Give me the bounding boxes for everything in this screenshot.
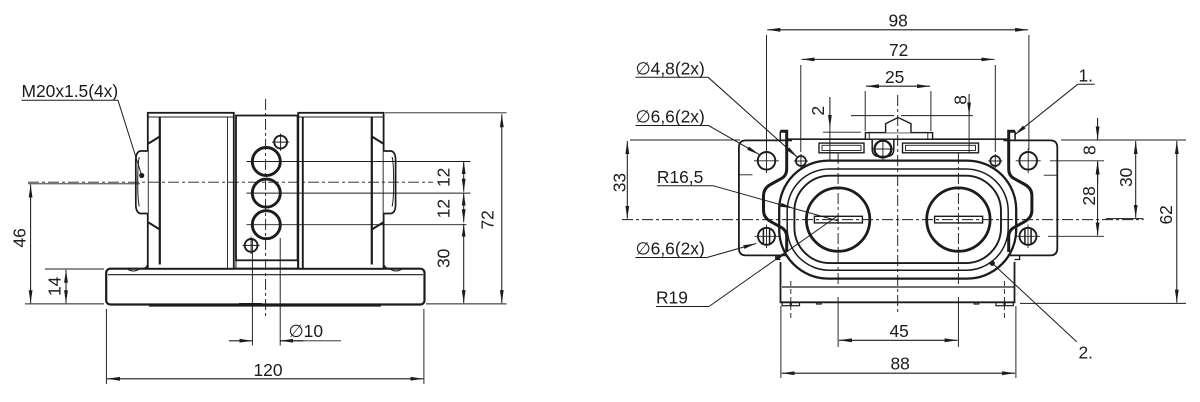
svg-text:30: 30 (434, 249, 454, 268)
label R165 underline (657, 185, 714, 187)
panel bottom right step (297, 260, 299, 268)
terminal screw pad (872, 140, 894, 157)
big circle left (806, 188, 869, 251)
tab hole bottom right cross (1016, 225, 1040, 249)
right block rib chamfer bottom (372, 223, 383, 230)
dim 14 ext top (45, 268, 104, 270)
right block left inner line (302, 117, 304, 268)
svg-text:12: 12 (434, 199, 454, 218)
label 2 leader (992, 263, 1077, 342)
dim 72 ext lines (801, 65, 996, 152)
dim 33 ext top (630, 139, 740, 141)
svg-text:1.: 1. (1079, 66, 1094, 86)
label o66 upper underline (636, 125, 709, 127)
dim 72 line (802, 58, 995, 60)
RIGHT-VIEW-DIMS (627, 30, 1186, 378)
base top left recess dip (127, 269, 140, 271)
hole o48 left (796, 156, 806, 166)
M20 leader dot (139, 173, 144, 178)
label 2 leader dot (990, 261, 995, 266)
label 1 leader (1014, 84, 1077, 135)
right circle vertical centerline (957, 153, 959, 285)
tab hole bottom left (758, 228, 775, 245)
right block (298, 113, 383, 269)
left block rib chamfer bottom (149, 223, 160, 230)
dim 8 right hole ext (1050, 160, 1104, 162)
base bottom recess line (149, 305, 381, 307)
left block base fillet (141, 262, 148, 268)
LEFT-VIEW (28, 99, 471, 316)
svg-text:98: 98 (889, 10, 908, 30)
dim 46 ext bottom left (25, 303, 104, 305)
svg-text:∅4,8(2x): ∅4,8(2x) (636, 59, 705, 79)
svg-text:R16,5: R16,5 (657, 167, 703, 187)
dim 98 line (767, 29, 1028, 31)
horizontal centerline bosses (28, 181, 433, 183)
dim 30 ext bottom (1106, 218, 1144, 220)
dim 88 line (782, 372, 1015, 374)
left boss M20 (136, 151, 148, 214)
vent slot left inner (822, 145, 861, 150)
svg-text:2.: 2. (1079, 343, 1094, 363)
svg-text:46: 46 (10, 228, 30, 247)
hole circle bottom centerline (247, 224, 467, 226)
left J wall (764, 131, 787, 252)
svg-text:72: 72 (478, 210, 498, 229)
label R19 arrowhead (776, 251, 788, 260)
bottom notch left (817, 302, 822, 304)
dim 88 ext lines (781, 306, 1016, 378)
dim 2 ext line (823, 131, 861, 133)
dim 45 ext lines (838, 297, 958, 347)
dim 25 ext lines (865, 91, 931, 131)
label o66 upper leader (709, 126, 760, 155)
dim 72 ext top (385, 112, 507, 114)
tab hole top left (758, 152, 776, 170)
svg-text:R19: R19 (656, 287, 688, 307)
main horizontal centerline (622, 219, 1144, 221)
actuator tab pentagon (886, 118, 911, 133)
svg-text:∅6,6(2x): ∅6,6(2x) (636, 239, 705, 259)
dim 12-12-30-72 right ext bottom (426, 303, 507, 305)
dim 120 line (107, 378, 423, 380)
hole circle mid centerline (247, 192, 471, 194)
small hole bottom cross (243, 237, 260, 254)
hole circle mid (252, 179, 280, 207)
hidden line right (1003, 281, 1005, 318)
right mounting tab (1004, 140, 1058, 255)
small hole top right (274, 136, 287, 149)
dim 62 ext bottom (1020, 302, 1186, 304)
right block top inner line (299, 116, 383, 118)
dim 14 line (65, 270, 67, 303)
lower body shelf line (782, 286, 1014, 288)
dim 72 line (501, 114, 503, 303)
svg-text:72: 72 (889, 40, 908, 60)
small hole bottom left (245, 239, 258, 252)
bottom notch right (974, 302, 979, 304)
svg-text:88: 88 (891, 354, 910, 374)
dim 8 top line (968, 94, 970, 115)
svg-text:8: 8 (1079, 145, 1099, 155)
hole circle top centerline (247, 161, 471, 163)
dim o10 ext lines (252, 238, 280, 346)
dim 30 line (1135, 141, 1137, 218)
label R19 leader (709, 216, 838, 307)
label R165 leader (714, 186, 839, 221)
hole circle top (252, 148, 280, 176)
dim 30 line (463, 224, 465, 303)
panel bottom left step (235, 260, 237, 268)
RIGHT-VIEW (622, 95, 1144, 318)
left tab parting line (739, 174, 753, 176)
vent slot right outer (903, 143, 979, 153)
dim 28 ext bottom (1048, 235, 1104, 237)
label 1 underline (1078, 83, 1095, 85)
label R19 underline (656, 306, 709, 308)
svg-text:33: 33 (610, 173, 630, 192)
label o66 lower leader (707, 244, 756, 258)
base plate (106, 269, 424, 305)
svg-text:8: 8 (951, 95, 971, 105)
slot right (935, 216, 983, 223)
dim 25 line (866, 85, 930, 87)
dim 2 line (829, 97, 831, 128)
dim 46 line (30, 185, 32, 304)
label o48 leader (708, 77, 798, 157)
RIGHT-VIEW-TEXT (610, 10, 1176, 373)
svg-text:25: 25 (885, 67, 904, 87)
tab hole top right cross (1016, 149, 1041, 174)
svg-text:62: 62 (1156, 205, 1176, 224)
label o48 underline (636, 76, 709, 78)
right block rib chamfer top (372, 137, 383, 144)
cover bar right notch (927, 133, 929, 140)
tab hole bottom right slot (1025, 228, 1031, 244)
tab hole bottom left slot (763, 228, 769, 244)
hidden line left (790, 281, 792, 318)
dim 12 lower line (463, 193, 465, 223)
obround middle wall (787, 169, 1008, 270)
label R165 arrowhead (780, 203, 793, 208)
base top inner line (108, 274, 423, 276)
svg-text:28: 28 (1079, 186, 1099, 205)
hole o48 right cross (988, 154, 1002, 168)
terminal screw cross (872, 139, 894, 160)
big circle right (927, 188, 990, 251)
LEFT-VIEW-TEXT (10, 81, 498, 380)
right J wall cap (1014, 131, 1016, 140)
right top ext line (1061, 139, 1186, 141)
right tab parting line (1044, 174, 1058, 176)
hole o48 right (990, 156, 1000, 166)
main vertical centerline (897, 95, 899, 312)
foot pad right b (1005, 302, 1013, 305)
left circle vertical centerline (837, 153, 839, 285)
left block rib chamfer top (149, 137, 160, 144)
left boss inner arc (138, 157, 140, 207)
left J wall cap (779, 131, 781, 140)
svg-text:2: 2 (808, 106, 828, 116)
vent slot right inner (906, 145, 976, 150)
dim 28 line (1097, 162, 1099, 236)
obround outer wall (779, 161, 1016, 279)
dim 33 line (626, 141, 628, 219)
left block (148, 113, 234, 269)
tab hole bottom left cross (755, 225, 779, 249)
lower body right step (1015, 255, 1020, 259)
hole circle bottom (252, 211, 280, 239)
obround inner wall (794, 176, 1001, 263)
svg-text:14: 14 (45, 276, 65, 296)
left block inner rib (159, 117, 161, 265)
dim 2 tail (829, 128, 831, 160)
right boss inner arc (392, 157, 394, 207)
dim 62 line (1176, 141, 1178, 303)
lower body left step (776, 255, 781, 259)
right boss M20 (384, 151, 396, 214)
tab hole top left cross (754, 149, 779, 174)
right block base fillet (384, 262, 391, 268)
cover bar (865, 133, 932, 140)
M20 label underline (22, 99, 119, 101)
dim 8 right lower arrow (1097, 161, 1099, 183)
dim 8 top tail (968, 116, 970, 153)
svg-text:∅6,6(2x): ∅6,6(2x) (636, 107, 705, 127)
dim 45 line (839, 339, 958, 341)
cover bar left notch (868, 133, 870, 140)
tab hole bottom right (1020, 228, 1037, 245)
base top right recess dip (390, 269, 403, 271)
LEFT-VIEW-DIMS (22, 100, 507, 384)
dim 8 right upper arrow (1097, 118, 1099, 140)
left block top inner line (148, 116, 233, 118)
dim o10 tail (280, 340, 341, 342)
svg-text:M20x1.5(4x): M20x1.5(4x) (22, 81, 119, 101)
left block right inner line (227, 117, 229, 268)
foot pad left a (782, 302, 790, 305)
dim 8 top ext line (851, 115, 973, 117)
dim 12 upper line (463, 161, 465, 192)
slot left (814, 216, 862, 223)
svg-text:30: 30 (1116, 168, 1136, 187)
dim o10 arrows (229, 340, 252, 342)
body top edge (787, 138, 1009, 140)
right block inner rib (371, 117, 373, 265)
svg-text:12: 12 (434, 168, 454, 187)
tab hole top right (1019, 152, 1037, 170)
dim 120 ext lines (106, 309, 424, 384)
small hole top cross (272, 134, 289, 151)
hole o48 left cross (794, 154, 808, 168)
left mounting tab (739, 140, 792, 255)
lower body (781, 262, 1015, 302)
label o66 lower underline (636, 257, 708, 259)
svg-text:120: 120 (254, 360, 283, 380)
right J wall (1009, 131, 1032, 252)
foot pad left b (791, 302, 799, 305)
foot pad right a (996, 302, 1004, 305)
terminal screw circle (875, 141, 892, 158)
svg-text:45: 45 (890, 321, 909, 341)
dim 98 ext lines (767, 35, 1029, 150)
vent slot left outer (819, 143, 864, 153)
central panel (236, 116, 298, 261)
base bottom foot pad (239, 303, 262, 306)
dim 46 ext top (28, 183, 140, 185)
M20 label leader (118, 100, 142, 175)
svg-text:∅10: ∅10 (289, 321, 324, 341)
vertical centerline (265, 99, 267, 316)
